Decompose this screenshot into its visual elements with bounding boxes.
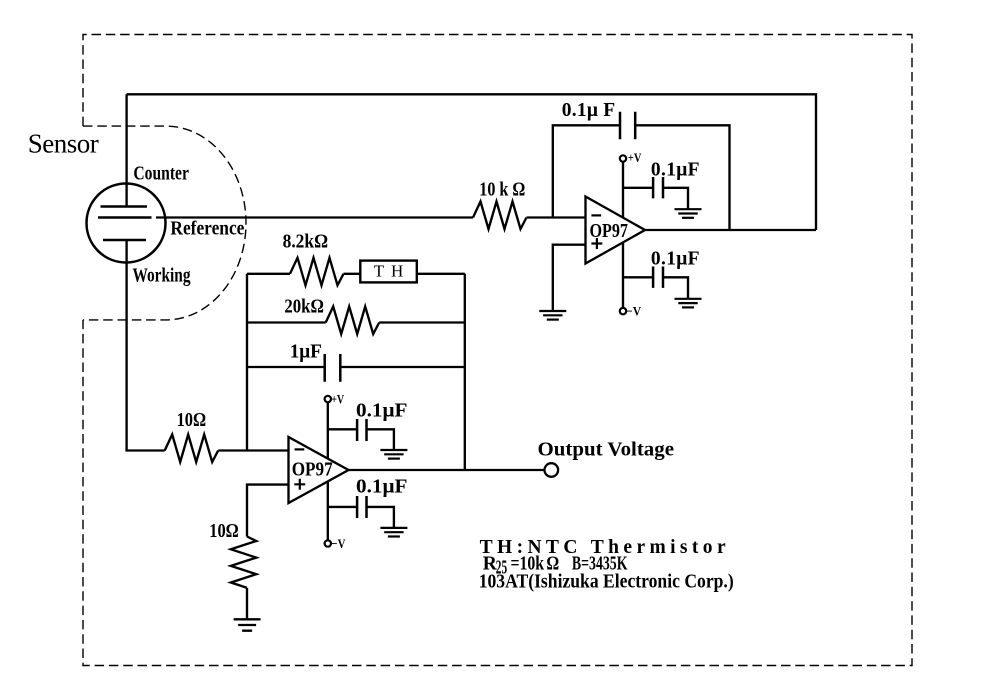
svg-text:OP97: OP97	[590, 221, 629, 242]
wire: -V to U1 power pin	[622, 242, 624, 307]
svg-text:OP97: OP97	[292, 460, 333, 481]
ground (U2 non-inverting)	[234, 619, 261, 630]
power -V terminal U1	[620, 308, 626, 314]
capacitor C3 0.1μF (U1 -V decoupling)	[653, 267, 663, 288]
output terminal (open circle)	[545, 463, 559, 477]
wire: counter electrode stem	[125, 94, 127, 206]
wire: U1 +V decoupling branch	[623, 187, 653, 189]
capacitor C1 0.1μF (U1 feedback)	[620, 112, 635, 140]
wire: top branch left segment	[247, 273, 290, 275]
resistor R1 10kΩ	[473, 202, 527, 230]
svg-text:0.1μ F: 0.1μ F	[562, 100, 615, 121]
svg-text:Working: Working	[133, 266, 191, 287]
svg-text:10Ω: 10Ω	[209, 521, 239, 542]
wire: R5 to ground	[246, 588, 248, 619]
wire: +V to U1 power pin	[622, 162, 624, 218]
wire: U2 -V decoupling branch	[328, 506, 357, 508]
wire: U1 non-inverting input to ground	[553, 245, 586, 311]
svg-text:+V: +V	[628, 150, 642, 165]
svg-text:+V: +V	[331, 391, 344, 406]
capacitor C4 1μF	[325, 354, 341, 382]
svg-text:103AT(Ishizuka Electronic Corp: 103AT(Ishizuka Electronic Corp.)	[479, 572, 734, 593]
svg-text:10 k Ω: 10 k Ω	[479, 180, 525, 201]
ground (U1 -V decoupling)	[675, 299, 702, 308]
sensor working electrode	[103, 239, 146, 242]
resistor R3 20kΩ	[326, 307, 380, 335]
wire: -V to U2 power pin	[327, 481, 329, 540]
thermistor TH	[360, 261, 417, 283]
resistor R5 10Ω (to ground)	[231, 537, 257, 588]
svg-text:−V: −V	[331, 536, 346, 551]
sensor counter electrode	[101, 205, 148, 208]
svg-text:8.2kΩ: 8.2kΩ	[283, 232, 329, 253]
wire: U2 non-inverting input branch	[247, 485, 289, 537]
wire: working electrode to R4	[127, 240, 165, 451]
wire: R1 to U1 inverting input	[527, 216, 586, 218]
ground (U1 non-inverting)	[539, 311, 566, 320]
wire: U1 output	[645, 229, 816, 231]
U1 inverting input marker	[591, 214, 601, 216]
wire: network left rail	[246, 274, 248, 451]
wire: network right rail	[464, 274, 466, 470]
U1 non-inverting input marker	[591, 238, 602, 249]
wire: R4 to U2 inverting input, junction with left rail	[218, 449, 288, 451]
wire: top feedback loop from counter node to U1 output	[127, 94, 816, 230]
power +V terminal U1	[620, 155, 626, 161]
wire: R2 to TH	[344, 273, 361, 275]
wire: U2 +V decoupling branch	[328, 428, 357, 430]
resistor R2 8.2kΩ	[290, 258, 344, 286]
svg-text:Sensor: Sensor	[28, 129, 99, 159]
wire: C2 to ground	[663, 188, 688, 209]
capacitor C2 0.1μF (U1 +V decoupling)	[653, 177, 663, 198]
wire: U2 output to terminal	[349, 469, 545, 471]
capacitor C6 0.1μF (U2 -V decoupling)	[357, 496, 366, 518]
wire: 1μF branch right segment	[342, 366, 465, 368]
wire: reference electrode to R1	[156, 216, 473, 218]
wire: U1 feedback right branch to output	[636, 125, 729, 230]
power +V terminal U2	[325, 396, 331, 402]
sensor body (electrochemical cell)	[87, 184, 166, 263]
capacitor C5 0.1μF (U2 +V decoupling)	[357, 419, 366, 441]
svg-text:0.1μF: 0.1μF	[356, 477, 408, 498]
wire: +V to U2 power pin	[327, 402, 329, 458]
ground (U1 +V decoupling)	[675, 209, 702, 218]
U2 non-inverting input marker	[294, 479, 305, 490]
svg-text:1μF: 1μF	[290, 341, 322, 362]
op-amp U2 OP97	[289, 437, 349, 503]
wire: 20k branch left segment	[247, 321, 326, 323]
svg-text:Counter: Counter	[133, 164, 189, 185]
wire: U1 -V decoupling branch	[623, 276, 653, 278]
border frame (dashed)	[83, 35, 912, 666]
sensor reference electrode	[98, 216, 152, 219]
U2 inverting input marker	[295, 448, 305, 450]
power -V terminal U2	[325, 540, 331, 546]
wire: 1μF branch left segment	[247, 366, 324, 368]
svg-text:Reference: Reference	[170, 219, 244, 240]
resistor R4 10Ω (input)	[165, 435, 219, 463]
svg-text:10Ω: 10Ω	[177, 410, 207, 431]
svg-text:0.1μF: 0.1μF	[356, 401, 408, 422]
wire: TH to right rail	[417, 273, 465, 275]
sensor dashed boundary	[83, 126, 246, 320]
svg-text:20kΩ: 20kΩ	[284, 297, 324, 318]
wire: U1 feedback left branch	[553, 125, 619, 217]
wire: C3 to ground	[663, 277, 688, 298]
wire: C6 to ground	[367, 507, 394, 527]
wire: C5 to ground	[367, 429, 394, 449]
op-amp U1 OP97	[586, 197, 646, 264]
svg-text:−V: −V	[626, 304, 642, 319]
svg-text:0.1μF: 0.1μF	[651, 249, 700, 270]
svg-text:Output Voltage: Output Voltage	[538, 440, 675, 461]
ground (U2 +V decoupling)	[380, 450, 407, 459]
wire: 20k branch right segment	[379, 321, 465, 323]
svg-text:0.1μF: 0.1μF	[651, 160, 700, 181]
ground (U2 -V decoupling)	[380, 528, 407, 537]
